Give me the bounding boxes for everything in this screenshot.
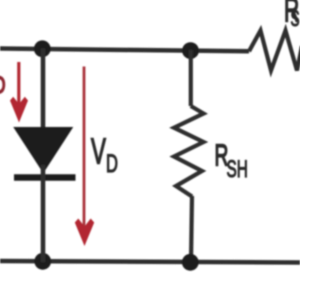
voltage arrow VD (red) xyxy=(75,67,94,247)
svg-text:D: D xyxy=(0,72,5,98)
svg-text:D: D xyxy=(106,151,118,178)
node top junction xyxy=(182,42,199,59)
diode D1 cathode bar xyxy=(14,174,76,181)
node top left junction xyxy=(34,40,51,57)
wire bottom rail xyxy=(0,261,300,263)
wire RSH top xyxy=(189,50,193,106)
resistor RSH (vertical zigzag) xyxy=(174,106,204,197)
node bottom left junction xyxy=(34,253,51,270)
wire diode anode xyxy=(41,49,46,132)
svg-text:SH: SH xyxy=(227,157,248,183)
label VD xyxy=(91,132,118,178)
svg-text:V: V xyxy=(91,132,106,172)
resistor RS (horizontal zigzag, top right) xyxy=(249,31,302,71)
label RS xyxy=(284,0,300,31)
wire diode cathode xyxy=(41,165,46,262)
wire RSH bottom xyxy=(191,196,192,262)
label RSH xyxy=(215,139,248,183)
svg-text:S: S xyxy=(291,6,300,31)
diode D1 triangle xyxy=(16,129,71,171)
wire top rail xyxy=(0,49,249,52)
node bottom right junction xyxy=(182,254,199,271)
current arrow IP (red) xyxy=(10,62,28,123)
